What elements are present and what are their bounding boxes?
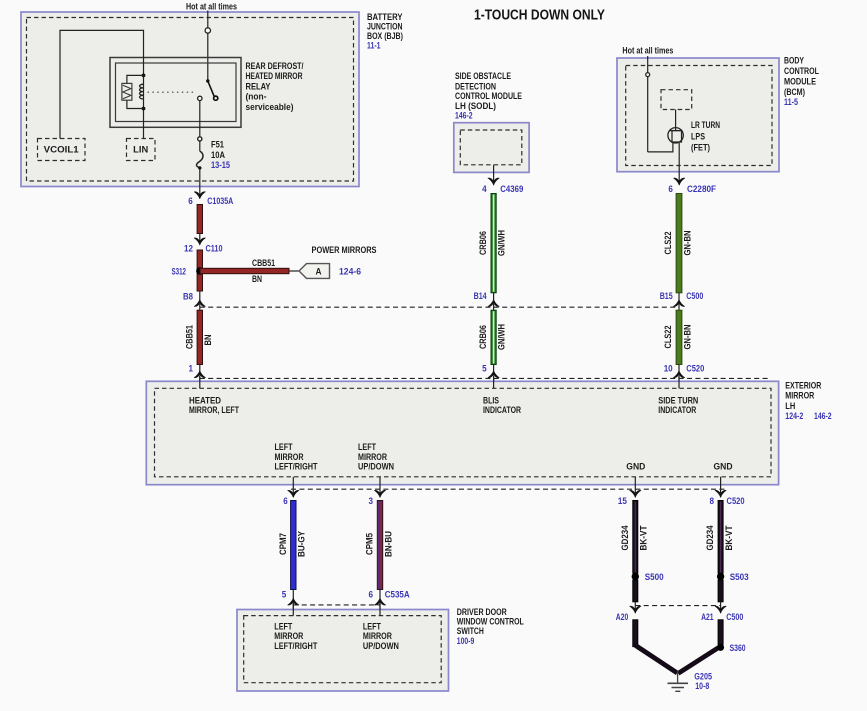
wire stems mirror top pins xyxy=(199,376,201,389)
wire CBB51 BN segment 2 xyxy=(197,250,202,291)
svg-text:BOX (BJB): BOX (BJB) xyxy=(367,31,403,41)
svg-text:G205: G205 xyxy=(694,671,712,681)
svg-text:10A: 10A xyxy=(211,150,225,160)
svg-text:DETECTION: DETECTION xyxy=(455,82,496,92)
node coil top xyxy=(142,74,146,78)
svg-text:S503: S503 xyxy=(730,572,749,582)
svg-text:BN: BN xyxy=(203,335,213,346)
svg-text:CLS22: CLS22 xyxy=(663,326,673,349)
svg-text:JUNCTION: JUNCTION xyxy=(367,21,403,31)
relay K rear defrost/heated mirror relay xyxy=(110,58,241,128)
wire CLS22 GN-BN segment 2 xyxy=(663,310,693,364)
svg-text:B14: B14 xyxy=(474,291,487,301)
svg-text:124-2: 124-2 xyxy=(785,411,803,421)
svg-text:F51: F51 xyxy=(211,140,224,150)
svg-text:POWER MIRRORS: POWER MIRRORS xyxy=(312,245,377,255)
wire hot feed into BJB xyxy=(207,11,209,81)
wire harness dashed line bottom of mirror xyxy=(291,488,725,490)
wire CBB51 BN branch to power mirrors xyxy=(200,268,289,273)
switch relay contact xyxy=(198,79,218,100)
svg-text:11-5: 11-5 xyxy=(784,97,798,107)
driver block (dashed) in BCM xyxy=(661,90,692,110)
svg-text:MIRROR: MIRROR xyxy=(358,452,387,462)
module exterior mirror LH xyxy=(146,381,778,484)
VCOIL1 xyxy=(38,139,86,161)
svg-text:INDICATOR: INDICATOR xyxy=(483,405,521,415)
svg-text:RELAY: RELAY xyxy=(246,81,271,91)
svg-text:GD234: GD234 xyxy=(705,526,715,551)
svg-text:MIRROR: MIRROR xyxy=(363,631,392,641)
svg-text:C500: C500 xyxy=(686,291,703,301)
wire contact to fuse xyxy=(199,101,201,137)
svg-text:REAR DEFROST/: REAR DEFROST/ xyxy=(246,61,304,71)
svg-text:INDICATOR: INDICATOR xyxy=(658,405,696,415)
svg-text:6: 6 xyxy=(283,496,288,506)
svg-text:GND: GND xyxy=(714,462,733,472)
svg-text:BATTERY: BATTERY xyxy=(367,12,403,22)
svg-text:6: 6 xyxy=(369,590,374,600)
wire harness dashed line C124-2/C146-2 top xyxy=(200,377,771,379)
svg-text:S312: S312 xyxy=(172,267,187,277)
svg-text:MIRROR: MIRROR xyxy=(785,391,814,401)
svg-text:CPM5: CPM5 xyxy=(365,533,375,555)
fuse F51 10A xyxy=(196,137,230,198)
svg-text:CONTROL MODULE: CONTROL MODULE xyxy=(455,91,522,101)
svg-text:A21: A21 xyxy=(701,612,714,622)
node splice S503 xyxy=(717,573,724,580)
svg-text:WINDOW CONTROL: WINDOW CONTROL xyxy=(457,617,524,627)
svg-text:(BCM): (BCM) xyxy=(784,87,805,97)
svg-text:1-TOUCH DOWN ONLY: 1-TOUCH DOWN ONLY xyxy=(474,8,605,24)
module driver door window control switch xyxy=(237,610,449,692)
svg-text:(non-: (non- xyxy=(246,92,267,102)
connector C2280F pin 6 xyxy=(673,178,685,185)
battery junction box BJB xyxy=(21,12,359,187)
wire lead to offpage connector xyxy=(289,270,299,272)
svg-text:CPM7: CPM7 xyxy=(278,533,288,555)
svg-text:C2280F: C2280F xyxy=(687,184,716,194)
svg-text:BN: BN xyxy=(252,274,262,284)
connector C4369 pin 4 xyxy=(488,178,500,185)
connector C110 pin 12 xyxy=(199,234,201,245)
wire harness dashed line C535A xyxy=(293,604,380,606)
wire SODL output stem xyxy=(493,165,495,185)
svg-text:C110: C110 xyxy=(206,244,223,254)
svg-text:15: 15 xyxy=(618,496,627,506)
wire GD234 BK-VT right segment 2 xyxy=(718,580,723,602)
svg-text:LEFT/RIGHT: LEFT/RIGHT xyxy=(275,462,318,472)
svg-text:BU-GY: BU-GY xyxy=(297,531,307,557)
svg-text:S360: S360 xyxy=(730,643,746,653)
svg-text:serviceable): serviceable) xyxy=(246,102,294,112)
svg-text:GN/WH: GN/WH xyxy=(497,230,507,256)
wire harness dashed line C500 bottom xyxy=(635,605,720,607)
svg-text:10: 10 xyxy=(664,364,673,374)
svg-text:LEFT: LEFT xyxy=(358,442,376,452)
svg-text:HEATED MIRROR: HEATED MIRROR xyxy=(246,71,303,81)
wire harness dashed line C500 xyxy=(200,306,679,308)
svg-text:GN-BN: GN-BN xyxy=(683,325,693,350)
svg-text:1: 1 xyxy=(189,364,194,374)
svg-text:3: 3 xyxy=(369,496,374,506)
svg-text:10-8: 10-8 xyxy=(695,681,709,691)
svg-text:6: 6 xyxy=(668,184,673,194)
connector C500 pins A20,A21 xyxy=(634,602,636,613)
svg-text:C1035A: C1035A xyxy=(207,196,233,206)
svg-text:EXTERIOR: EXTERIOR xyxy=(785,380,821,390)
wire relay coil to VCOIL1 loop xyxy=(60,30,144,138)
svg-text:Hot at all times: Hot at all times xyxy=(186,2,237,12)
svg-text:C520: C520 xyxy=(686,364,704,374)
svg-text:GND: GND xyxy=(626,462,645,472)
node splice S360 xyxy=(717,644,724,651)
wire CLS22 GN-BN segment 1 xyxy=(663,194,693,293)
wire BCM internal feed xyxy=(647,56,649,152)
wire GD234 left segment 3 to ground xyxy=(633,620,638,647)
svg-text:DRIVER DOOR: DRIVER DOOR xyxy=(457,607,507,617)
svg-text:C4369: C4369 xyxy=(500,184,523,194)
svg-text:CONTROL: CONTROL xyxy=(784,66,819,76)
svg-text:(FET): (FET) xyxy=(691,142,710,152)
svg-text:A20: A20 xyxy=(616,612,629,622)
inductor relay coil xyxy=(140,84,144,99)
svg-text:SIDE TURN: SIDE TURN xyxy=(658,395,698,405)
svg-text:LIN: LIN xyxy=(133,145,148,155)
wire stems mirror bottom pins xyxy=(292,477,294,497)
svg-text:MIRROR, LEFT: MIRROR, LEFT xyxy=(189,405,239,415)
svg-text:CRB06: CRB06 xyxy=(478,325,488,349)
node coil bottom xyxy=(142,107,146,111)
svg-text:UP/DOWN: UP/DOWN xyxy=(363,641,399,651)
svg-text:C520: C520 xyxy=(727,496,745,506)
svg-text:C535A: C535A xyxy=(385,590,410,600)
svg-text:146-2: 146-2 xyxy=(455,111,473,121)
svg-text:LH (SODL): LH (SODL) xyxy=(455,101,496,111)
svg-text:LEFT: LEFT xyxy=(363,622,381,632)
svg-text:LH: LH xyxy=(785,401,795,411)
svg-text:CLS22: CLS22 xyxy=(663,232,673,255)
svg-text:11-1: 11-1 xyxy=(367,40,381,50)
svg-text:13-15: 13-15 xyxy=(211,160,230,170)
wire CBB51 BN segment 1 xyxy=(197,205,202,234)
connector pins 6,3,15,8 arrows xyxy=(288,490,300,497)
wire dotted actuation link xyxy=(148,91,197,93)
wire stems switch pins xyxy=(292,603,294,616)
svg-text:LEFT: LEFT xyxy=(274,622,292,632)
svg-text:LEFT: LEFT xyxy=(275,442,293,452)
wire CBB51 BN segment 3 xyxy=(197,310,202,364)
svg-text:LEFT/RIGHT: LEFT/RIGHT xyxy=(274,641,317,651)
svg-text:BK-VT: BK-VT xyxy=(639,525,649,550)
svg-text:124-6: 124-6 xyxy=(339,267,361,277)
svg-text:CBB51: CBB51 xyxy=(184,325,194,349)
wire GD234 BK-VT left segment 1 xyxy=(620,501,649,574)
connector C1035A pin 6 xyxy=(194,192,206,199)
svg-text:B8: B8 xyxy=(183,292,193,302)
wire coil to LIN xyxy=(143,109,145,139)
svg-text:A: A xyxy=(316,267,322,277)
LIN xyxy=(127,139,156,161)
wire CRB06 GN/WH segment 2 xyxy=(478,310,507,364)
svg-text:4: 4 xyxy=(482,184,487,194)
svg-text:C500: C500 xyxy=(726,612,743,622)
svg-text:SWITCH: SWITCH xyxy=(457,626,484,636)
svg-text:MIRROR: MIRROR xyxy=(275,452,304,462)
ground G205 xyxy=(668,671,689,691)
svg-text:CBB51: CBB51 xyxy=(252,258,275,268)
svg-text:6: 6 xyxy=(188,196,193,206)
wire GD234 right segment 3 to ground xyxy=(718,620,723,645)
svg-text:MODULE: MODULE xyxy=(784,76,816,86)
node splice S500 xyxy=(632,573,639,580)
connector offpage A POWER MIRRORS xyxy=(299,245,377,278)
svg-text:BK-VT: BK-VT xyxy=(724,525,734,550)
svg-text:GD234: GD234 xyxy=(620,526,630,551)
svg-text:B15: B15 xyxy=(660,291,673,301)
svg-text:BN-BU: BN-BU xyxy=(383,531,393,557)
svg-text:GN/WH: GN/WH xyxy=(497,324,507,350)
svg-text:BLIS: BLIS xyxy=(483,395,499,405)
wire CRB06 GN/WH segment 1 xyxy=(478,194,507,293)
svg-text:5: 5 xyxy=(282,590,287,600)
svg-text:MIRROR: MIRROR xyxy=(274,631,303,641)
svg-text:UP/DOWN: UP/DOWN xyxy=(358,462,394,472)
transistor LR TURN LPS FET xyxy=(668,110,683,144)
svg-text:GN-BN: GN-BN xyxy=(683,231,693,256)
svg-text:CRB06: CRB06 xyxy=(478,231,488,255)
wire GD234 BK-VT right segment 1 xyxy=(705,501,734,574)
wire CPM7 BU-GY xyxy=(278,501,307,590)
svg-text:5: 5 xyxy=(482,364,487,374)
svg-text:146-2: 146-2 xyxy=(814,411,832,421)
module BCM body control module xyxy=(617,58,779,172)
wire GD234 BK-VT left segment 2 xyxy=(633,580,638,602)
wire BCM output stem xyxy=(678,143,680,185)
svg-text:LPS: LPS xyxy=(691,131,705,141)
node splice S312 xyxy=(196,267,203,274)
svg-text:BODY: BODY xyxy=(784,56,804,66)
svg-text:S500: S500 xyxy=(645,572,664,582)
resistor (relay suppression) xyxy=(122,75,144,108)
svg-text:Hot at all times: Hot at all times xyxy=(622,46,673,56)
wire CPM5 BN-BU xyxy=(365,501,394,590)
svg-text:HEATED: HEATED xyxy=(189,395,221,405)
svg-text:LR TURN: LR TURN xyxy=(691,120,720,130)
svg-text:8: 8 xyxy=(710,496,715,506)
svg-text:100-9: 100-9 xyxy=(457,636,475,646)
svg-text:VCOIL1: VCOIL1 xyxy=(44,145,79,155)
svg-text:12: 12 xyxy=(184,244,193,254)
svg-text:SIDE OBSTACLE: SIDE OBSTACLE xyxy=(455,71,511,81)
